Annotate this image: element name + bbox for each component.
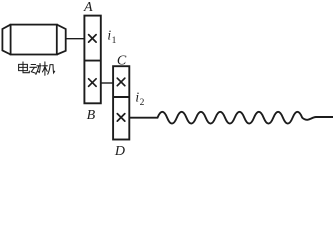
svg-text:D: D	[114, 144, 125, 158]
svg-text:2: 2	[140, 98, 145, 108]
motor label 电动机 (drawn strokes)	[19, 62, 55, 75]
gear cross A (upper)	[89, 35, 97, 43]
gear cross B (lower)	[89, 79, 97, 87]
动	[30, 64, 41, 75]
motor 电动机 body	[2, 25, 65, 55]
svg-text:A: A	[83, 0, 93, 15]
gearbox block C-D	[113, 66, 129, 139]
svg-text:C: C	[117, 54, 127, 69]
svg-text:B: B	[87, 108, 96, 123]
gear cross C (upper)	[117, 78, 125, 86]
机	[42, 62, 54, 75]
gear cross D (lower)	[117, 114, 125, 122]
电	[19, 62, 30, 73]
output shaft with flexible (wavy) section	[129, 112, 333, 124]
shaft: gearbox A-B to gearbox C-D	[101, 82, 113, 84]
gearbox block A-B	[84, 16, 100, 104]
shaft: motor to gearbox A-B	[66, 38, 85, 40]
svg-text:1: 1	[112, 36, 117, 46]
